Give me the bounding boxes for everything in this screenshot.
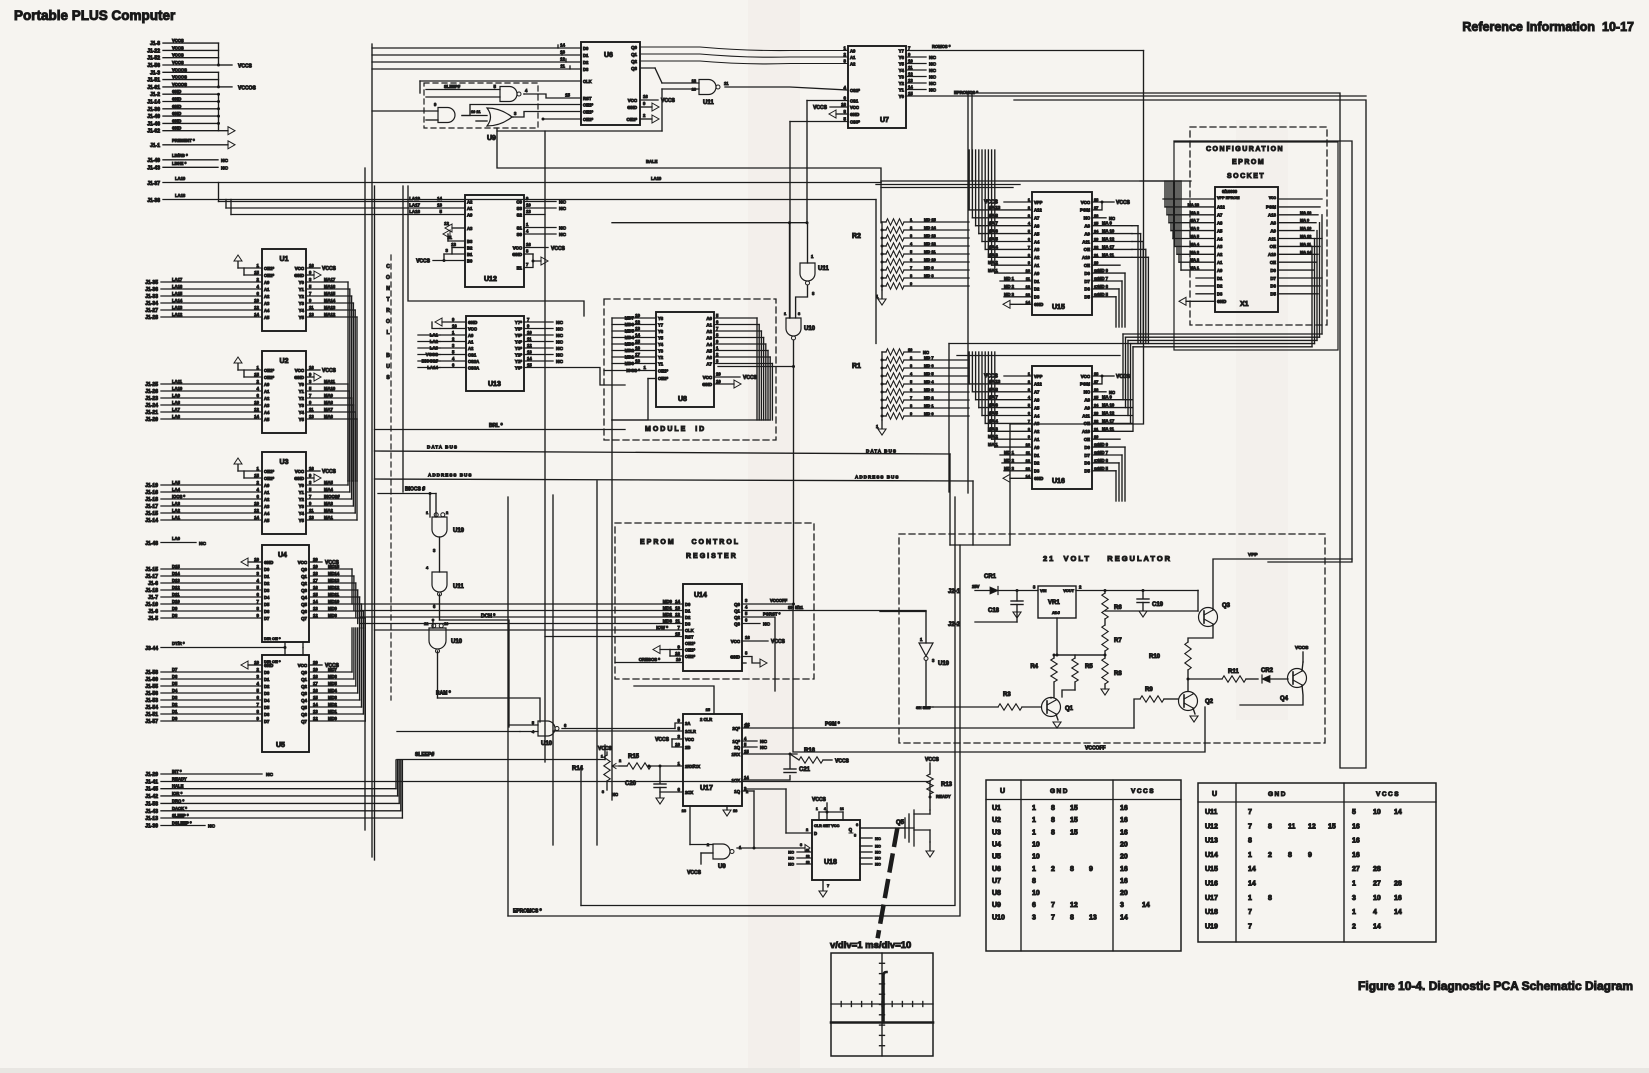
svg-text:RAM *: RAM * (436, 691, 451, 697)
svg-text:MA 4: MA 4 (1190, 241, 1200, 246)
svg-text:MD 7: MD 7 (1098, 450, 1109, 455)
svg-text:O: O (386, 275, 390, 281)
svg-text:A4: A4 (1034, 239, 1040, 244)
svg-text:27: 27 (1094, 379, 1098, 384)
svg-text:Y5: Y5 (299, 417, 305, 422)
svg-text:MD 3: MD 3 (924, 387, 934, 392)
svg-text:D1: D1 (1217, 276, 1223, 281)
svg-text:NC: NC (556, 353, 563, 359)
wire U16 addr out A8 (1092, 399, 1132, 401)
svg-text:D11: D11 (172, 592, 180, 597)
svg-text:MA4: MA4 (324, 487, 334, 492)
svg-text:16: 16 (309, 466, 314, 471)
svg-text:U6: U6 (992, 866, 1001, 873)
wire MD output bundle verticals (351, 569, 353, 604)
svg-text:OE1*: OE1* (658, 368, 668, 373)
svg-text:1: 1 (1032, 817, 1036, 824)
wire U19 out (439, 537, 441, 572)
svg-text:A9: A9 (1084, 405, 1090, 410)
svg-text:MA16: MA16 (324, 284, 336, 289)
wire U8 IOCS input (604, 370, 656, 372)
svg-text:GND: GND (172, 111, 181, 116)
svg-text:Q1: Q1 (301, 574, 307, 579)
svg-text:16: 16 (526, 242, 531, 247)
wire X1 left pin row 5 (1171, 230, 1215, 232)
svg-text:Y1: Y1 (299, 490, 305, 495)
svg-text:10: 10 (908, 59, 913, 64)
svg-text:16: 16 (1120, 878, 1128, 885)
wire U12 B inputs elbow (448, 240, 465, 242)
svg-text:14: 14 (1142, 902, 1150, 909)
svg-text:13: 13 (1089, 914, 1097, 921)
wire U16 addr out A9 (1092, 407, 1132, 409)
wire U16 data out D0 (1092, 446, 1125, 448)
svg-text:13: 13 (313, 606, 318, 611)
svg-text:OE2*: OE2* (658, 376, 668, 381)
svg-text:D2: D2 (264, 684, 270, 689)
wire X1 right pin row 5 (1278, 230, 1314, 232)
svg-text:10: 10 (254, 501, 259, 506)
wire U6 Q3 to U11 (640, 67, 655, 69)
svg-text:A3: A3 (264, 301, 270, 306)
svg-text:IOR *: IOR * (172, 791, 183, 796)
svg-text:D7: D7 (1084, 453, 1090, 458)
IC U7 (848, 46, 906, 128)
wire U15 address input A6 (976, 225, 1032, 227)
svg-text:U13: U13 (488, 381, 501, 388)
svg-text:VCCS: VCCS (813, 105, 828, 111)
wire U14 NC (742, 623, 760, 625)
svg-text:Q1: Q1 (1065, 706, 1074, 712)
wire U3 VCC to VCCS (306, 470, 320, 472)
wire U4 output MD14 (309, 575, 354, 577)
wire U15 data out D7 (1092, 280, 1122, 282)
svg-text:GND: GND (294, 273, 304, 278)
svg-text:A8: A8 (1084, 398, 1090, 403)
svg-text:A8: A8 (1084, 224, 1090, 229)
svg-text:11: 11 (1288, 823, 1296, 830)
svg-text:13: 13 (313, 709, 318, 714)
svg-text:7: 7 (1248, 823, 1252, 830)
svg-text:8: 8 (1070, 866, 1074, 873)
svg-text:Y2: Y2 (899, 81, 905, 86)
svg-text:7: 7 (827, 883, 829, 888)
gate U10 stack (429, 628, 446, 649)
svg-text:D5: D5 (1084, 295, 1090, 300)
svg-text:DIR OE *: DIR OE * (264, 636, 281, 641)
svg-text:15: 15 (675, 632, 680, 637)
svg-text:A0: A0 (264, 483, 270, 488)
svg-text:MA 6: MA 6 (988, 229, 999, 234)
wire U16 address input A5 (979, 407, 1032, 409)
svg-text:D0: D0 (685, 602, 691, 607)
wire U7 VCC VCCS (830, 106, 848, 108)
svg-text:BIOCS #: BIOCS # (405, 487, 425, 493)
svg-text:Y0*: Y0* (515, 365, 522, 370)
node VCCS rail junction (218, 43, 220, 65)
svg-text:J1-14: J1-14 (147, 100, 160, 106)
wire U17 1CX to C21 (742, 776, 790, 781)
svg-text:9: 9 (1308, 852, 1312, 859)
svg-text:VCC: VCC (628, 98, 638, 103)
wire U13 left pin 3 (440, 347, 466, 349)
wire U7 NC stub 4 (906, 76, 926, 78)
wire junction to vertical gates (612, 222, 807, 224)
wire U5 VCC to VCCS (309, 664, 322, 666)
wire U16 addr out OE (1092, 422, 1132, 424)
svg-text:GND: GND (294, 375, 304, 380)
wire U13 left pin 5 (440, 354, 466, 356)
svg-text:Q2: Q2 (734, 615, 740, 620)
svg-text:12: 12 (635, 320, 640, 325)
svg-text:LA5: LA5 (172, 480, 181, 485)
svg-text:10 11: 10 11 (471, 109, 481, 114)
wire READY join (929, 782, 931, 798)
svg-text:VCCS: VCCS (687, 870, 702, 876)
svg-text:Y3*: Y3* (515, 346, 522, 351)
svg-text:A2: A2 (468, 346, 474, 351)
svg-text:16: 16 (1352, 852, 1360, 859)
wire U18 Qbar NC (860, 837, 872, 839)
svg-text:U2: U2 (280, 358, 289, 365)
svg-text:OE2*: OE2* (264, 273, 274, 278)
gate U11 and-stack (432, 572, 447, 592)
wire U1 output MA16 (306, 288, 350, 290)
svg-text:Y2: Y2 (299, 396, 305, 401)
svg-text:16: 16 (745, 635, 750, 640)
wire U4 GND arrow-left (248, 561, 262, 563)
svg-text:A4: A4 (264, 511, 270, 516)
svg-text:11: 11 (309, 407, 314, 412)
svg-text:D13: D13 (172, 578, 180, 583)
svg-text:Q2: Q2 (301, 581, 307, 586)
svg-text:R15: R15 (628, 754, 640, 760)
wire U15 VCC VCCS (1092, 202, 1102, 210)
svg-text:MD4: MD4 (328, 688, 338, 693)
wire R2 element 7 (904, 269, 969, 271)
svg-text:MA1: MA1 (324, 515, 334, 520)
svg-text:7: 7 (1028, 244, 1030, 249)
svg-text:16: 16 (313, 585, 318, 590)
wire IOW line to U14 (375, 629, 684, 631)
svg-text:U10: U10 (451, 639, 463, 645)
svg-text:Y5: Y5 (299, 518, 305, 523)
wire U13 right pin 7 (524, 321, 553, 323)
svg-text:MD 14: MD 14 (924, 225, 937, 230)
svg-text:VCCS: VCCS (835, 759, 850, 765)
wire U12 GND arrow (524, 253, 533, 255)
svg-text:7: 7 (910, 395, 912, 400)
gate U9 OR (487, 108, 512, 126)
wire U12 C0 NC (524, 201, 556, 203)
svg-text:11: 11 (806, 849, 810, 853)
svg-text:LA17: LA17 (409, 203, 420, 208)
svg-text:NC: NC (559, 232, 566, 238)
svg-text:U: U (386, 364, 390, 370)
wire X1 left bus verticals (1164, 181, 1166, 207)
svg-text:J1-43: J1-43 (147, 166, 160, 172)
svg-text:D7: D7 (264, 616, 270, 621)
svg-text:J1-13: J1-13 (145, 816, 158, 822)
wire X1 left pin row 3 (1167, 214, 1215, 216)
svg-text:DIR OE *: DIR OE * (264, 659, 281, 664)
wire U6 CLK (420, 80, 581, 82)
wire U5 output MD4 (309, 692, 358, 694)
IC U2 (262, 351, 306, 433)
wire U15 data out D5 (1092, 296, 1116, 298)
svg-text:MD 1: MD 1 (924, 403, 934, 408)
svg-text:Y6: Y6 (658, 329, 664, 334)
wire U5 output MD1 (309, 713, 363, 715)
svg-text:15: 15 (1070, 817, 1078, 824)
svg-text:A9: A9 (1084, 231, 1090, 236)
svg-text:BRL *: BRL * (489, 423, 503, 429)
wire U9 out riser to U17 (753, 791, 755, 848)
wire U17 2CX from C20 (660, 791, 683, 793)
svg-text:J1-35: J1-35 (145, 280, 158, 286)
svg-text:VCCS: VCCS (238, 64, 253, 70)
svg-text:U: U (1000, 788, 1005, 795)
svg-text:A13: A13 (1268, 213, 1277, 218)
svg-text:MD 6: MD 6 (1098, 458, 1109, 463)
wire bus vertical x553 (552, 495, 554, 845)
svg-text:U4: U4 (278, 552, 287, 559)
group U9 dashed box (424, 83, 538, 128)
svg-text:1: 1 (1032, 829, 1036, 836)
svg-text:READY: READY (936, 794, 951, 799)
svg-text:GND: GND (172, 89, 181, 94)
wire U15 address input A12 (969, 209, 1032, 211)
svg-text:VPP: VPP (1248, 552, 1258, 558)
svg-text:U8: U8 (992, 890, 1001, 897)
wire U16 address input A2 (988, 430, 1032, 432)
svg-text:J1-2: J1-2 (150, 92, 160, 98)
svg-text:LA2: LA2 (172, 508, 181, 513)
svg-text:19: 19 (313, 667, 318, 672)
svg-text:DRQ *: DRQ * (172, 798, 184, 803)
wire U16 data input D3 (1004, 470, 1032, 472)
wire U16 address input A0 (995, 446, 1032, 448)
svg-text:A6: A6 (1034, 398, 1040, 403)
wire U13 right pin 14 (524, 360, 553, 362)
wire U14 bottom stub (742, 662, 746, 664)
svg-text:14: 14 (908, 85, 913, 90)
wire U17 NC stubs (742, 740, 757, 742)
svg-text:11: 11 (560, 64, 565, 69)
svg-text:IOCS *: IOCS * (626, 368, 640, 373)
wire loop vertical x1340 (968, 93, 1366, 768)
svg-text:R16: R16 (804, 748, 816, 754)
wire frame around U12 (408, 186, 584, 316)
svg-text:Y2: Y2 (299, 294, 305, 299)
wire U2 output MA10 (306, 390, 350, 392)
svg-text:17: 17 (313, 578, 318, 583)
svg-text:A9: A9 (1270, 228, 1276, 233)
svg-text:A6: A6 (1217, 221, 1223, 226)
wire CRESCS line to U14 (615, 662, 683, 664)
svg-text:LA9: LA9 (172, 393, 181, 398)
svg-text:C18: C18 (988, 608, 1000, 614)
wire U13 right pin 12 (524, 347, 553, 349)
svg-text:7: 7 (1248, 909, 1252, 916)
svg-text:2 CLR: 2 CLR (700, 717, 712, 722)
wire U4 output MD8 (309, 617, 365, 619)
svg-text:E1: E1 (517, 265, 523, 270)
svg-text:NC: NC (556, 359, 563, 365)
svg-text:14: 14 (1394, 809, 1402, 816)
svg-text:Q0: Q0 (301, 567, 307, 572)
svg-text:A3: A3 (467, 226, 473, 231)
svg-text:10: 10 (254, 400, 259, 405)
svg-text:A7: A7 (1034, 216, 1040, 221)
svg-text:D6: D6 (1084, 287, 1090, 292)
svg-text:R5: R5 (1085, 664, 1093, 670)
svg-text:1: 1 (1352, 881, 1356, 888)
wire VCCS tap (219, 64, 233, 66)
svg-text:VCCS: VCCS (172, 38, 184, 43)
svg-text:VCC: VCC (685, 737, 694, 742)
svg-text:R2: R2 (852, 233, 861, 240)
wire U15 address input A4 (982, 241, 1032, 243)
wire X1 left pin row 12 (1196, 285, 1215, 287)
svg-text:D6: D6 (1084, 461, 1090, 466)
wire LA16 to U12 pin 5 (231, 214, 465, 216)
svg-text:U9: U9 (718, 864, 726, 870)
svg-text:15: 15 (527, 363, 532, 368)
wire U16 address input A7 (972, 391, 1032, 393)
svg-text:MD2: MD2 (328, 702, 338, 707)
svg-text:J1-20: J1-20 (145, 417, 158, 423)
svg-text:LA1: LA1 (172, 515, 181, 520)
wire U1 output MA17 (306, 281, 348, 283)
svg-text:J1-18: J1-18 (145, 588, 158, 594)
wire U14 VCC VCCS (742, 640, 768, 642)
svg-text:MA 1: MA 1 (1190, 265, 1200, 270)
svg-text:CE: CE (1084, 263, 1090, 268)
svg-text:A5: A5 (264, 315, 270, 320)
svg-text:NC: NC (875, 836, 881, 841)
svg-text:LA10: LA10 (172, 386, 183, 391)
IC U18 (812, 820, 860, 880)
wire bus vertical x374 (374, 186, 376, 860)
svg-text:U12: U12 (484, 276, 497, 283)
svg-text:Q0: Q0 (734, 602, 740, 607)
svg-text:13: 13 (560, 50, 565, 55)
svg-text:MA2: MA2 (324, 508, 334, 513)
svg-text:J1-42: J1-42 (145, 794, 158, 800)
svg-text:8: 8 (1051, 829, 1055, 836)
svg-text:12: 12 (313, 613, 318, 618)
gate U9 AND (438, 108, 455, 123)
svg-text:14: 14 (254, 515, 259, 520)
svg-text:2A: 2A (685, 721, 690, 726)
wire bus vertical x968 (967, 93, 969, 493)
svg-text:MD 9: MD 9 (924, 265, 934, 270)
svg-text:MD13: MD13 (328, 578, 340, 583)
svg-text:D10: D10 (172, 599, 180, 604)
regulator VR1 (1038, 586, 1076, 618)
svg-text:U16: U16 (1205, 881, 1218, 888)
svg-text:SH 5/21: SH 5/21 (788, 605, 804, 610)
svg-text:A2: A2 (1034, 255, 1040, 260)
svg-text:20: 20 (1120, 890, 1128, 897)
svg-text:A0: A0 (264, 382, 270, 387)
svg-text:1: 1 (1248, 852, 1252, 859)
svg-text:NC: NC (266, 772, 273, 778)
svg-text:2: 2 (1352, 923, 1356, 930)
wire X1 right pin row 10 (1278, 269, 1314, 271)
svg-text:A4: A4 (706, 342, 712, 347)
svg-text:EPROM: EPROM (1232, 159, 1265, 166)
wire U9 OR output (512, 116, 513, 118)
svg-text:MA 6: MA 6 (988, 403, 999, 408)
svg-text:OE: OE (1084, 247, 1090, 252)
svg-text:D1: D1 (264, 574, 270, 579)
svg-text:12: 12 (908, 72, 913, 77)
svg-text:A1: A1 (264, 389, 270, 394)
svg-text:LA4: LA4 (172, 487, 181, 492)
svg-text:18: 18 (313, 571, 318, 576)
svg-text:U19: U19 (938, 661, 950, 667)
svg-text:12: 12 (254, 407, 259, 412)
svg-text:0/16030: 0/16030 (1222, 189, 1238, 194)
svg-text:21 VOLT REGULATOR: 21 VOLT REGULATOR (1043, 554, 1172, 563)
svg-text:Figure 10-4. Diagnostic PCA Sc: Figure 10-4. Diagnostic PCA Schematic Di… (1358, 979, 1633, 993)
svg-text:2CX: 2CX (685, 790, 693, 795)
wire GND out arrow (219, 130, 229, 132)
svg-text:D6: D6 (1270, 284, 1276, 289)
wire U15 addr out A10 (1092, 256, 1132, 258)
svg-text:15: 15 (635, 339, 640, 344)
svg-text:MD 8: MD 8 (924, 273, 934, 278)
wire U7 CS3 from below (790, 121, 848, 123)
svg-text:MA 9: MA 9 (1102, 395, 1113, 400)
wire U1 VCC to VCCS (306, 267, 320, 269)
svg-text:U13: U13 (1205, 838, 1218, 845)
wire U15 address input A5 (979, 233, 1032, 235)
svg-text:NC: NC (556, 333, 563, 339)
wire R2 element 1 (904, 221, 969, 223)
svg-text:LA12: LA12 (172, 312, 183, 317)
svg-text:MA 14: MA 14 (1300, 249, 1312, 254)
svg-text:16: 16 (1120, 817, 1128, 824)
svg-text:D1: D1 (1034, 279, 1040, 284)
svg-text:J1-34: J1-34 (145, 301, 158, 307)
svg-text:MA 3: MA 3 (1190, 249, 1200, 254)
wire ROMCS vertical (1010, 51, 1144, 425)
svg-text:DSLEEP *: DSLEEP * (172, 821, 192, 826)
svg-text:PRESENT *: PRESENT * (172, 138, 195, 143)
svg-text:16: 16 (1120, 829, 1128, 836)
svg-text:Q5: Q5 (301, 705, 307, 710)
svg-text:14: 14 (744, 775, 749, 780)
wire U19 input (880, 611, 926, 613)
svg-text:R4: R4 (1030, 664, 1038, 670)
svg-text:VCCS: VCCS (416, 259, 431, 265)
svg-text:MA6: MA6 (324, 414, 334, 419)
svg-text:PGM: PGM (1080, 208, 1090, 213)
svg-text:GND: GND (512, 252, 522, 257)
node VCCOS rail junction (218, 72, 220, 87)
wire U16 addr out A10 (1092, 430, 1132, 432)
svg-text:J1-7: J1-7 (148, 595, 158, 601)
svg-text:OE: OE (1270, 244, 1276, 249)
svg-text:J1-17: J1-17 (145, 504, 158, 510)
svg-text:SLEEP#: SLEEP# (415, 752, 434, 758)
wire EPROMCS long line (906, 95, 1366, 97)
svg-text:12: 12 (1308, 823, 1316, 830)
svg-text:D0: D0 (583, 46, 589, 51)
